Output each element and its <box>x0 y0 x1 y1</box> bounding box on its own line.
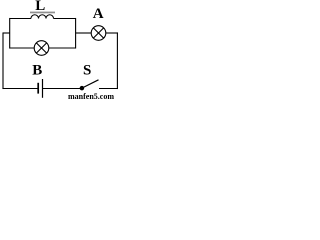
wire: bottom left segment to battery <box>2 88 38 90</box>
svg-text:A: A <box>93 6 104 22</box>
inductor L iron core bar <box>30 12 55 14</box>
wire: parallel-block left edge <box>9 18 11 49</box>
inductor L coil <box>31 15 54 19</box>
wire: lamp branch left segment <box>10 47 35 49</box>
battery B negative plate (short thick) <box>37 83 39 94</box>
battery B positive plate (long thin) <box>42 79 44 98</box>
label A <box>93 6 104 22</box>
wire: outer loop left edge <box>2 32 4 89</box>
wire: right tap stub to ammeter lamp A <box>76 32 92 34</box>
svg-text:S: S <box>83 62 91 78</box>
watermark manfen5.com <box>68 92 114 101</box>
lamp A (circle with X) <box>91 26 106 41</box>
wire: lamp A to right edge <box>106 32 118 34</box>
lamp L1 (circle with X) <box>34 41 49 56</box>
wire: outer loop right edge <box>116 32 118 89</box>
wire: parallel-block top branch left segment <box>10 18 31 20</box>
svg-text:L: L <box>35 0 45 14</box>
label B <box>32 62 42 78</box>
svg-text:B: B <box>32 62 42 78</box>
label S <box>83 62 91 78</box>
wire: lamp branch right segment <box>49 47 76 49</box>
label L <box>35 0 45 14</box>
switch S pivot junction dot <box>80 86 85 91</box>
wire: bottom right segment switch to right edge <box>99 88 118 90</box>
switch S lever (open) <box>82 80 99 88</box>
svg-text:manfen5.com: manfen5.com <box>68 92 114 99</box>
wire: parallel-block right edge <box>75 18 77 49</box>
wire: left tap stub <box>3 32 10 34</box>
wire: parallel-block top branch right segment <box>54 18 76 20</box>
wire: bottom middle segment battery to switch <box>42 88 82 90</box>
